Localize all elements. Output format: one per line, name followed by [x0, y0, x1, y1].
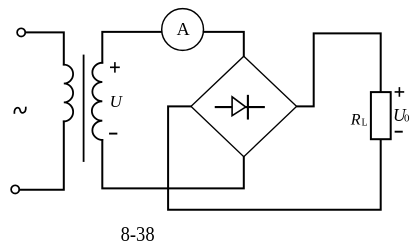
- wire bridge left vertex to load bottom: [168, 106, 381, 209]
- label - output: [396, 131, 402, 133]
- wire ammeter to bridge top vertex: [204, 32, 244, 56]
- ammeter A circle: [162, 9, 204, 51]
- transformer core: [83, 56, 85, 162]
- bridge rectifier diamond: [191, 56, 297, 157]
- label + secondary: [111, 63, 119, 72]
- wire secondary bottom to bridge bottom vertex: [102, 140, 244, 188]
- AC source terminal bottom: [11, 185, 19, 193]
- wire primary bottom to bottom-left terminal: [19, 121, 63, 189]
- wire top-left terminal to transformer primary: [25, 32, 63, 64]
- wire secondary top to ammeter: [102, 32, 162, 63]
- svg-text:0: 0: [404, 112, 410, 124]
- label + output: [395, 88, 403, 96]
- wire bridge right vertex to load top: [297, 33, 381, 106]
- transformer T primary coil: [64, 65, 73, 122]
- svg-text:A: A: [177, 19, 190, 39]
- svg-text:R: R: [350, 111, 361, 128]
- diode D triangle: [232, 97, 246, 116]
- diode D anode lead: [216, 106, 264, 108]
- AC source terminal top: [17, 28, 25, 36]
- label - secondary: [110, 133, 116, 135]
- diode D cathode bar: [247, 96, 249, 119]
- AC source sine symbol: [14, 108, 25, 114]
- transformer secondary coil: [92, 63, 102, 140]
- svg-text:L: L: [362, 117, 368, 128]
- svg-text:U: U: [110, 92, 124, 111]
- resistor RL body: [371, 92, 391, 139]
- svg-text:8-38: 8-38: [121, 222, 155, 246]
